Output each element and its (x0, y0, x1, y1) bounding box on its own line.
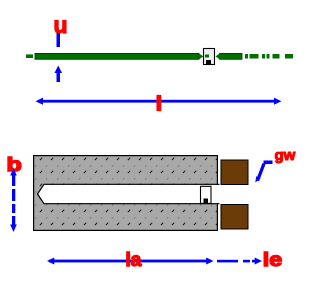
dimension line l (blue, below bar) (38, 100, 278, 103)
green taper into wedge box (left) (199, 53, 204, 59)
vertical dimension arrow (blue, dashed, left) (10, 168, 17, 176)
wedge box (white, top view, in slot) (201, 186, 212, 203)
arrow up to bar from below (blue) (55, 66, 63, 74)
brown end block (top) (221, 160, 249, 186)
green dash inside wedge box (205, 55, 209, 58)
svg-text:gw: gw (275, 147, 296, 164)
specimen bar (green, side view) (35, 53, 199, 59)
svg-text:le: le (263, 250, 283, 271)
specimen block (gray, textured) with slot (34, 156, 218, 231)
svg-text:l: l (156, 94, 161, 115)
specimen bar centerline dash (left) (26, 54, 33, 58)
centerline dash-dot (right) (245, 54, 248, 59)
black mark in bottom wedge box (204, 199, 209, 204)
dimension leader lc (blue, dashed, bottom right) (217, 260, 238, 263)
black mark in wedge box (206, 60, 211, 64)
svg-text:u: u (54, 12, 68, 38)
specimen bar right of box (220, 53, 243, 59)
green taper out of box (right) (216, 53, 221, 59)
dimension line la (blue, bottom) (49, 260, 211, 263)
label b (red, left) (7, 154, 22, 175)
svg-text:la: la (126, 250, 142, 271)
brown end block (bottom) (221, 204, 249, 230)
slot (crack) cut from right edge, pointed tip at left (38, 185, 220, 203)
label le (red) (263, 250, 283, 271)
leader dashes for u (blue, above bar) (57, 33, 61, 47)
leader line (blue) top right (256, 163, 266, 181)
wedge box (white, side view) (204, 49, 215, 65)
